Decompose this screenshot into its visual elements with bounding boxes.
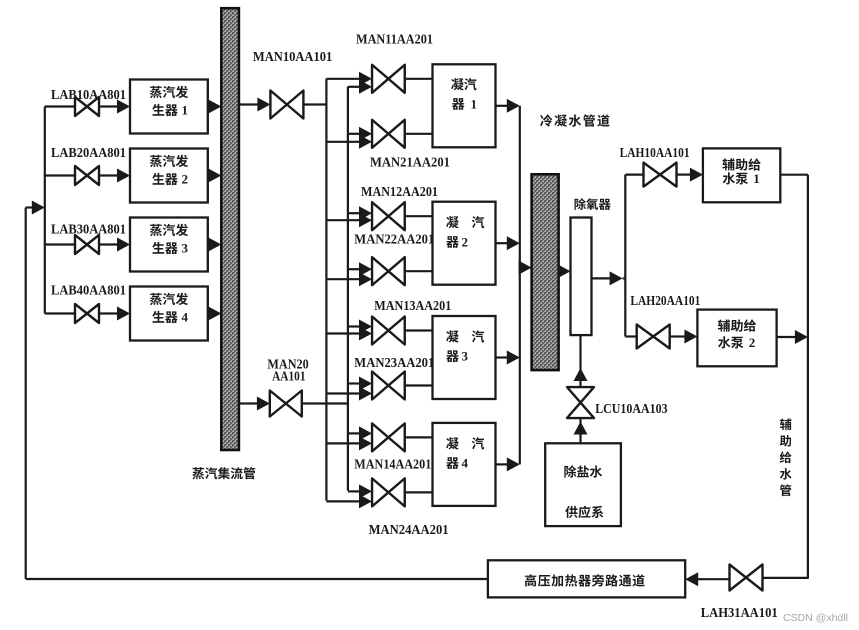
wire: junction to valve LAH10AA101 <box>625 174 643 176</box>
svg-text:LCU10AA103: LCU10AA103 <box>595 401 668 416</box>
svg-text:MAN11AA201: MAN11AA201 <box>356 31 433 46</box>
wire: valve MAN22AA201 output to condenser 2 <box>405 270 433 272</box>
wire: feed lines with arrows into valve MAN22AA201 <box>326 262 372 286</box>
wire: valve LAH31 output with arrow into bypass box <box>685 572 729 586</box>
wire: distribution vertical line V1 <box>325 79 327 501</box>
label LAB20AA801 <box>51 145 126 160</box>
condensate header bar <box>532 174 559 370</box>
valve LAB20AA801 <box>75 166 99 185</box>
wire: generator supply vertical line <box>44 107 46 314</box>
valve LAB10AA801 <box>75 97 99 116</box>
wire: feed line to steam generator 1 <box>45 105 120 107</box>
wire: return elbow into generator supply line with arrow <box>26 201 45 215</box>
svg-text:1: 1 <box>471 97 478 112</box>
wire: feed lines with arrows into valve MAN13AA201 <box>326 320 372 341</box>
label 冷凝水管道 (condensate piping) <box>540 114 610 126</box>
label LCU10AA103 <box>595 401 668 416</box>
valve MAN12AA201 <box>372 202 405 230</box>
valve MAN23AA201 <box>372 372 405 400</box>
label MAN14AA201 <box>354 456 431 471</box>
label MAN20AA101 line2 <box>272 369 306 384</box>
label MAN10AA101 <box>253 49 333 64</box>
svg-text:LAH10AA101: LAH10AA101 <box>620 145 690 160</box>
box deaerator <box>571 218 592 336</box>
valve LAB30AA801 <box>75 235 99 254</box>
wire: feed line to steam generator 3 <box>45 243 120 245</box>
wire: valve MAN13AA201 output to condenser 3 <box>405 329 433 331</box>
label 除氧器 (deaerator) <box>575 198 611 210</box>
svg-text:4: 4 <box>182 310 189 325</box>
svg-text:LAH20AA101: LAH20AA101 <box>630 293 700 308</box>
wire: steam generator 4 output with arrow into header <box>208 307 222 321</box>
wire: condenser 3 output with arrow to condensate line <box>496 351 520 365</box>
steam header bar (蒸汽集流管) <box>221 8 239 450</box>
svg-text:2: 2 <box>182 172 189 187</box>
wire: distribution vertical line V2 <box>347 87 349 491</box>
arrow into steam generator 1 <box>117 100 130 114</box>
wire: feed lines with arrows into valve MAN12AA201 <box>326 206 372 227</box>
wire: right riser vertical (auxiliary feed line) <box>807 175 809 579</box>
wire: junction to valve LAH20AA101 <box>625 335 636 337</box>
label MAN20AA101 line1 <box>267 356 309 371</box>
box demineralized water supply (除盐水供应系) <box>545 443 621 526</box>
svg-text:MAN22AA201: MAN22AA201 <box>354 232 434 247</box>
box condenser 3 (凝汽器3) <box>433 316 496 399</box>
wire: MAN20 output to distribution line V2 <box>302 402 348 404</box>
svg-text:3: 3 <box>182 241 189 256</box>
svg-text:1: 1 <box>753 171 760 186</box>
wire: feed lines with arrows into valve MAN11AA201 <box>326 72 372 94</box>
svg-text:2: 2 <box>462 234 469 249</box>
wire: riser elbow to valve LAH31AA101 <box>763 577 808 579</box>
svg-text:MAN13AA201: MAN13AA201 <box>374 298 451 313</box>
wire: valve MAN24AA201 output to condenser 4 <box>405 491 433 493</box>
label LAB40AA801 <box>51 282 126 297</box>
label LAH31AA101 <box>701 605 778 620</box>
valve LAB40AA801 <box>75 304 99 323</box>
label MAN24AA201 <box>369 522 449 537</box>
box steam generator 4 (蒸汽发生器4) <box>130 287 208 341</box>
wire: condenser 1 output with arrow to condensate line <box>496 99 520 113</box>
svg-text:2: 2 <box>749 335 756 350</box>
box condenser 2 (凝汽器2) <box>433 202 496 285</box>
box condenser 1 (凝汽器1) <box>433 64 496 147</box>
valve MAN20AA101 <box>270 391 302 417</box>
wire: valve MAN21AA201 output to condenser 1 <box>405 133 433 135</box>
wire: header to MAN20 valve with arrow <box>239 397 270 411</box>
valve LAH20AA101 <box>637 325 670 349</box>
wire: valve MAN12AA201 output to condenser 2 <box>405 215 433 217</box>
label MAN13AA201 <box>374 298 451 313</box>
wire: arrow from condensate bar into deaerator <box>558 264 571 278</box>
svg-text:LAH31AA101: LAH31AA101 <box>701 605 778 620</box>
svg-text:MAN14AA201: MAN14AA201 <box>354 456 431 471</box>
wire: condensate collector vertical line <box>519 106 521 465</box>
svg-text:MAN10AA101: MAN10AA101 <box>253 49 333 64</box>
svg-text:1: 1 <box>182 103 189 118</box>
svg-text:3: 3 <box>462 349 469 364</box>
wire: condenser 4 output with arrow to condensate line <box>496 457 520 471</box>
wire: feed line to steam generator 2 <box>45 174 120 176</box>
label LAH10AA101 <box>620 145 690 160</box>
wire: valve MAN14AA201 output to condenser 4 <box>405 436 433 438</box>
valve MAN22AA201 <box>372 257 405 285</box>
wire: steam generator 2 output with arrow into header <box>208 169 222 183</box>
wire: valve MAN11AA201 output to condenser 1 <box>405 78 433 80</box>
valve MAN11AA201 <box>372 65 405 93</box>
label MAN22AA201 <box>354 232 434 247</box>
box steam generator 3 (蒸汽发生器3) <box>130 218 208 272</box>
svg-text:MAN21AA201: MAN21AA201 <box>370 154 450 169</box>
box auxiliary feed pump 2 (辅助给水泵2) <box>697 310 776 367</box>
label LAH20AA101 <box>630 293 700 308</box>
wire: feed lines with arrows into valve MAN14AA201 <box>326 426 372 450</box>
label 蒸汽集流管 (steam header) <box>192 467 255 479</box>
arrow into steam generator 2 <box>117 169 130 183</box>
label MAN11AA201 <box>356 31 433 46</box>
label LAB10AA801 <box>51 87 126 102</box>
wire: deaerator output with arrow to pump junction <box>592 271 626 285</box>
valve MAN24AA201 <box>372 478 405 506</box>
label LAB30AA801 <box>51 221 126 236</box>
valve LAH31AA101 <box>730 565 763 591</box>
wire: steam generator 1 output with arrow into header <box>208 100 222 114</box>
wire: pump junction vertical line <box>624 175 626 337</box>
svg-text:CSDN @xhdll: CSDN @xhdll <box>783 612 848 624</box>
svg-text:4: 4 <box>462 456 469 471</box>
valve LCU10AA103 (vertical) <box>567 387 594 418</box>
wire: demin water supply to LCU valve with up arrow <box>574 418 588 443</box>
valve LAH10AA101 <box>644 163 677 187</box>
wire: collector stub with arrow into condensate header bar <box>519 261 532 275</box>
label 辅助给水管 (vertical) <box>780 418 792 496</box>
valve MAN13AA201 <box>372 317 405 345</box>
label MAN21AA201 <box>370 154 450 169</box>
arrow into steam generator 4 <box>117 307 130 321</box>
watermark CSDN @xhdll <box>783 612 848 624</box>
svg-text:AA101: AA101 <box>272 369 306 384</box>
svg-text:MAN12AA201: MAN12AA201 <box>361 184 438 199</box>
wire: valve LAH10 output with arrow into pump 1 <box>677 168 703 182</box>
wire: header to MAN10 valve with arrow <box>239 98 271 112</box>
wire: pump 2 output with arrow to right riser <box>777 330 808 344</box>
wire: bottom return line from bypass box to left <box>26 578 488 580</box>
wire: far-left vertical return line <box>25 208 27 580</box>
arrow into steam generator 3 <box>117 238 130 252</box>
wire: valve MAN23AA201 output to condenser 3 <box>405 384 433 386</box>
wire: deaerator bottom to LCU valve with up arrow <box>574 335 588 387</box>
svg-text:LAB40AA801: LAB40AA801 <box>51 282 126 297</box>
wire: MAN10 output to distribution line V1 <box>303 103 326 105</box>
wire: steam generator 3 output with arrow into header <box>208 238 222 252</box>
wire: feed lines with arrows into valve MAN21AA201 <box>326 127 372 149</box>
box HP heater bypass channel (高压加热器旁路通道) <box>488 560 685 597</box>
valve MAN10AA101 <box>270 91 303 119</box>
svg-text:LAB20AA801: LAB20AA801 <box>51 145 126 160</box>
box steam generator 2 (蒸汽发生器2) <box>130 149 208 203</box>
svg-text:MAN23AA201: MAN23AA201 <box>354 355 434 370</box>
wire: condenser 2 output with arrow to condensate line <box>496 236 520 250</box>
wire: feed lines with arrows into valve MAN23AA201 <box>326 377 372 401</box>
svg-text:LAB30AA801: LAB30AA801 <box>51 221 126 236</box>
wire: feed lines with arrows into valve MAN24AA201 <box>326 484 372 508</box>
valve MAN14AA201 <box>372 423 405 451</box>
svg-text:LAB10AA801: LAB10AA801 <box>51 87 126 102</box>
label MAN12AA201 <box>361 184 438 199</box>
svg-text:MAN24AA201: MAN24AA201 <box>369 522 449 537</box>
box auxiliary feed pump 1 (辅助给水泵1) <box>703 148 780 202</box>
wire: valve LAH20 output with arrow into pump 2 <box>670 330 698 344</box>
box condenser 4 (凝汽器4) <box>433 423 496 506</box>
wire: pump 1 output to right riser <box>780 174 808 176</box>
label MAN23AA201 <box>354 355 434 370</box>
wire: feed line to steam generator 4 <box>45 312 120 314</box>
box steam generator 1 (蒸汽发生器1) <box>130 80 208 134</box>
valve MAN21AA201 <box>372 120 405 148</box>
